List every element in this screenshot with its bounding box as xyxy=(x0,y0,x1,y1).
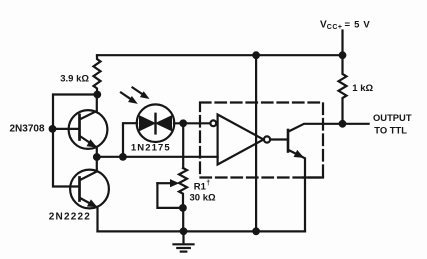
op-amp U1 comparator triangle xyxy=(218,115,264,165)
potentiometer R1 30 kOhm xyxy=(179,168,187,208)
light arrow 2 xyxy=(133,88,149,99)
svg-text:2N3708: 2N3708 xyxy=(10,124,45,135)
node Q1 emitter / Q2 collector xyxy=(93,153,101,161)
svg-text:3.9 kΩ: 3.9 kΩ xyxy=(60,74,89,85)
transistor Q3 output xyxy=(288,124,343,232)
svg-text:2N2222: 2N2222 xyxy=(49,212,91,223)
wire mid rail (Q1 emitter node to comparator lower input) xyxy=(97,156,218,158)
node R1 bottom xyxy=(179,204,187,212)
svg-text:TO TTL: TO TTL xyxy=(374,125,407,136)
wire left branch from node under 3.9k down to Q2 base xyxy=(53,95,97,187)
wire U1 output to Q3 base xyxy=(270,138,288,140)
node Q1 base xyxy=(49,125,57,133)
ground xyxy=(174,231,194,251)
svg-text:R1: R1 xyxy=(194,182,207,193)
node VCC rail / IC supply xyxy=(252,51,260,59)
R1 wiper arrow xyxy=(157,180,178,187)
wire output node to TTL xyxy=(343,123,369,125)
node photodiode right xyxy=(179,119,187,127)
node VCC xyxy=(339,51,347,59)
wire photodiode left lead down to mid rail xyxy=(123,123,137,157)
wire R1 bottom to ground rail xyxy=(182,208,184,231)
wire photodiode right lead to comparator input bubble xyxy=(174,122,211,124)
transistor Q1 2N3708 xyxy=(69,95,108,158)
photodiode CR1 1N2175 xyxy=(137,104,175,142)
wire node to R1 top xyxy=(182,123,184,168)
svg-text:30 kΩ: 30 kΩ xyxy=(190,193,216,204)
node photodiode left xyxy=(119,153,127,161)
resistor 3.9 kOhm xyxy=(94,55,101,94)
wire solid corner of dashed box xyxy=(303,176,323,178)
light arrow 1 xyxy=(121,93,137,104)
wire ground rail xyxy=(98,230,306,232)
svg-text:1 kΩ: 1 kΩ xyxy=(352,83,373,94)
svg-text:= 5 V: = 5 V xyxy=(345,20,371,31)
node ground rail / R1 xyxy=(180,227,188,235)
U1 output bubble xyxy=(264,136,270,142)
wire R1 wiper to bottom terminal xyxy=(157,183,183,208)
transistor Q2 2N2222 xyxy=(70,157,109,231)
dashed box (threshold detector module) xyxy=(200,103,323,178)
svg-text:OUTPUT: OUTPUT xyxy=(373,112,412,123)
wire top VCC rail xyxy=(97,54,343,56)
wire VCC stub xyxy=(341,31,343,56)
svg-text:CC+: CC+ xyxy=(327,24,343,31)
wire Q1 base xyxy=(53,128,79,130)
svg-text:†: † xyxy=(206,180,210,187)
node under 3.9k resistor xyxy=(93,91,101,99)
wire IC supply line (VCC rail to ground rail) xyxy=(255,55,257,231)
resistor 1 kOhm xyxy=(339,55,347,124)
node output xyxy=(339,120,347,128)
svg-text:1N2175: 1N2175 xyxy=(131,143,171,154)
node ground rail / IC xyxy=(252,227,260,235)
U1 input bubble xyxy=(210,120,216,126)
